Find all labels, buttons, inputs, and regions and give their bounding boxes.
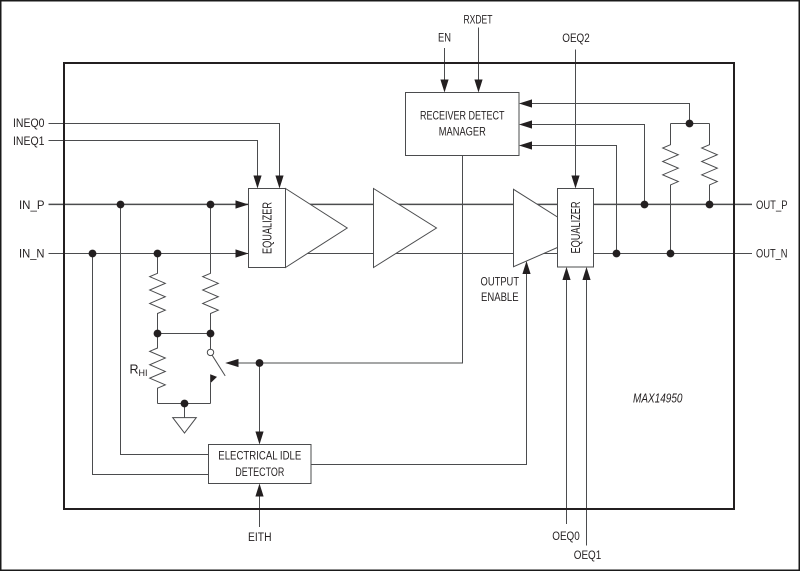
wire IN_N to electrical idle detector (93, 254, 209, 475)
arrowhead OEQ0 (562, 267, 570, 280)
wire INEQ0 (49, 124, 280, 180)
svg-text:OUT_P: OUT_P (756, 200, 788, 212)
resistor output termination N (663, 124, 679, 254)
svg-text:OEQ2: OEQ2 (562, 33, 590, 45)
wire IN_N to OUT_N (49, 253, 753, 255)
output amplifier stage 3 (514, 189, 587, 266)
junction dot OUT_P 1 (641, 201, 649, 209)
svg-text:INEQ0: INEQ0 (13, 118, 45, 130)
arrowhead equalizer1 input N (236, 249, 249, 257)
equalizer 1 box (249, 189, 286, 268)
junction dot ground rail (181, 400, 189, 408)
wire OEQ1 (586, 279, 588, 546)
svg-text:RECEIVER DETECT: RECEIVER DETECT (420, 111, 505, 123)
chip outline MAX14950 (64, 63, 734, 509)
switch (207, 334, 225, 404)
amplifier stage 2 (374, 189, 437, 268)
junction dot IN_N 1 (89, 250, 97, 258)
resistor input termination N (150, 254, 166, 334)
junction dot OUT_N 2 (667, 250, 675, 258)
arrowhead RXDET (474, 80, 482, 93)
svg-text:EN: EN (438, 32, 451, 44)
svg-text:OUT_N: OUT_N (756, 248, 788, 260)
svg-text:IN_N: IN_N (19, 248, 45, 260)
arrowhead receiver detect feedback 3 (519, 141, 532, 149)
arrowhead INEQ1 (253, 176, 261, 189)
junction dot IN_P 2 (207, 201, 215, 209)
wire OEQ0 (566, 279, 568, 525)
svg-text:DETECTOR: DETECTOR (235, 467, 284, 479)
wire receiver detect feedback 3 from OUT_N (530, 146, 617, 254)
wire EN (444, 48, 446, 82)
arrowhead into electrical idle detector top (255, 432, 263, 445)
equalizer 2 box (558, 189, 594, 268)
junction dot resistor bridge (686, 120, 694, 128)
label OUTPUT ENABLE (481, 277, 520, 305)
wire RXDET (478, 28, 480, 83)
junction dot IN_P 1 (117, 201, 125, 209)
svg-text:EQUALIZER: EQUALIZER (569, 202, 583, 254)
junction dot OUT_N 1 (613, 250, 621, 258)
wire resistor top bridge (671, 123, 710, 125)
electrical idle detector box (209, 445, 312, 484)
svg-text:OEQ1: OEQ1 (574, 550, 602, 562)
junction dot switch line (256, 359, 264, 367)
arrowhead EITH (255, 484, 263, 497)
arrowhead to switch (225, 359, 238, 367)
arrowhead receiver detect feedback 1 (519, 99, 532, 107)
ground (173, 404, 197, 434)
arrowhead EN (440, 80, 448, 93)
wire EITH (259, 495, 261, 527)
arrowhead output enable (522, 261, 530, 274)
arrowhead equalizer1 input P (236, 200, 249, 208)
svg-text:EITH: EITH (248, 532, 272, 544)
wire OEQ2 (575, 50, 577, 179)
resistor RHI (150, 334, 166, 404)
wire receiver detect feedback 1 from resistor junction (530, 104, 690, 124)
amplifier stage 1 (286, 189, 348, 268)
wire electrical idle detector output to output enable (311, 273, 527, 465)
junction dot termination right (207, 330, 215, 338)
receiver detect manager box (406, 93, 520, 156)
svg-text:RXDET: RXDET (464, 14, 493, 26)
junction dot termination left (154, 330, 162, 338)
arrowhead INEQ0 (275, 176, 283, 189)
svg-text:EQUALIZER: EQUALIZER (260, 202, 274, 254)
svg-text:INEQ1: INEQ1 (13, 136, 45, 148)
wire receiver detect feedback 2 from OUT_P (530, 125, 645, 205)
resistor output termination P (702, 124, 718, 205)
svg-text:IN_P: IN_P (19, 200, 45, 212)
svg-text:MANAGER: MANAGER (439, 127, 486, 139)
svg-text:ENABLE: ENABLE (481, 292, 519, 304)
junction dot IN_N 2 (154, 250, 162, 258)
svg-text:OUTPUT: OUTPUT (481, 277, 520, 289)
svg-text:MAX14950: MAX14950 (633, 392, 683, 406)
wire receiver detect manager output to switch (239, 156, 463, 364)
arrowhead OEQ2 (571, 176, 579, 189)
svg-text:ELECTRICAL IDLE: ELECTRICAL IDLE (218, 450, 301, 462)
junction dot OUT_P 2 (706, 201, 714, 209)
wire input termination junction (158, 333, 211, 335)
resistor input termination P (203, 205, 219, 334)
wire IN_P to electrical idle detector (121, 205, 209, 455)
arrowhead OEQ1 (582, 267, 590, 280)
wire IN_P to OUT_P (49, 203, 753, 205)
wire node to electrical idle detector (259, 363, 261, 434)
svg-text:OEQ0: OEQ0 (552, 531, 580, 543)
wire ground rail (158, 403, 211, 405)
arrowhead receiver detect feedback 2 (519, 120, 532, 128)
wire INEQ1 (49, 141, 258, 180)
